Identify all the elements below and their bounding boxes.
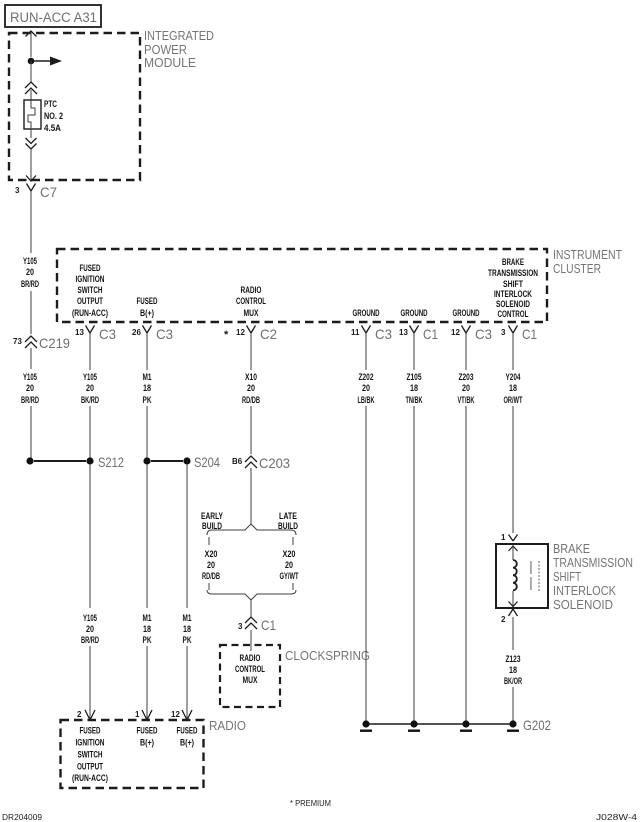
svg-text:Y105: Y105 [23, 256, 37, 267]
svg-text:(RUN-ACC): (RUN-ACC) [72, 773, 108, 784]
svg-text:RADIO: RADIO [209, 718, 246, 733]
svg-text:18: 18 [183, 624, 191, 635]
svg-text:20: 20 [26, 267, 34, 278]
svg-text:20: 20 [362, 383, 370, 394]
svg-text:20: 20 [462, 383, 470, 394]
arrow branch right [31, 60, 52, 62]
svg-text:BR/RD: BR/RD [21, 279, 39, 290]
wire label Z105 18 TN/BK [406, 372, 423, 406]
svg-text:CLOCKSPRING: CLOCKSPRING [285, 648, 370, 663]
svg-text:BRAKE: BRAKE [502, 257, 524, 268]
wire to ground [512, 687, 514, 721]
wire to BTSI solenoid [512, 406, 514, 533]
connector pin 13 C1 [399, 326, 438, 343]
cluster pin label: fused B(+) [137, 296, 158, 319]
wire label X20 20 RD/DB (early) [202, 549, 220, 582]
radio pin label: fused ignition switch output [72, 726, 108, 785]
wire below solenoid [512, 617, 514, 650]
svg-text:20: 20 [207, 560, 215, 571]
cluster pin label: radio control mux [236, 285, 266, 319]
svg-text:GROUND: GROUND [353, 308, 380, 319]
fuse PTC NO.2 4.5A [24, 99, 63, 134]
svg-text:18: 18 [509, 383, 517, 394]
svg-text:M1: M1 [143, 372, 152, 383]
wire label Y105 20 BR/RD [21, 256, 39, 290]
wire [30, 291, 32, 334]
radio pin label: fused B(+) pin12 [177, 726, 198, 749]
wire below fuse [30, 129, 32, 138]
wires into radio [89, 646, 91, 719]
svg-text:BK/OR: BK/OR [504, 676, 522, 687]
svg-text:SHIFT: SHIFT [553, 569, 581, 584]
svg-text:BRAKE: BRAKE [553, 541, 590, 556]
svg-text:3: 3 [238, 622, 243, 631]
svg-text:1: 1 [501, 533, 506, 542]
svg-text:SOLENOID: SOLENOID [553, 597, 613, 612]
cluster pin label: BTSI solenoid control [488, 257, 538, 320]
svg-text:B(+): B(+) [140, 738, 154, 749]
svg-text:SWITCH: SWITCH [78, 285, 103, 296]
wire [30, 61, 32, 82]
connector pin 13 C3 [75, 326, 116, 343]
ground wires down [365, 406, 367, 721]
arrow up inside top [509, 546, 518, 551]
svg-text:C3: C3 [375, 326, 392, 342]
solenoid core dashes [530, 561, 532, 591]
integrated power module box [9, 33, 140, 180]
connector C203 [232, 455, 290, 471]
solenoid pin 1 connector [501, 533, 518, 542]
connector pin 3 C1 [501, 326, 537, 343]
ground symbol 1 [362, 720, 369, 727]
svg-text:RD/DB: RD/DB [202, 571, 220, 582]
svg-text:PTC: PTC [44, 99, 57, 110]
connector pin 11 C3 [351, 326, 392, 343]
svg-text:X20: X20 [205, 549, 218, 560]
radio pin 12 connector [171, 710, 192, 720]
wire label Y105 20 BK/RD [81, 372, 99, 406]
svg-text:11: 11 [351, 328, 360, 337]
svg-text:X10: X10 [245, 372, 257, 383]
wire from merge to C1 [250, 600, 252, 617]
svg-text:BR/RD: BR/RD [21, 395, 39, 406]
radio pin 2 connector [77, 710, 95, 720]
svg-text:CONTROL: CONTROL [236, 296, 266, 307]
svg-text:2: 2 [77, 710, 82, 719]
wire label M1 18 PK (to radio pin12) [183, 613, 192, 646]
branch stub left [208, 537, 210, 545]
wire label Z202 20 LB/BK [358, 372, 375, 406]
svg-text:13: 13 [399, 328, 408, 337]
svg-text:INSTRUMENT: INSTRUMENT [553, 247, 622, 262]
brace split top [207, 524, 296, 535]
svg-text:G202: G202 [523, 717, 551, 733]
svg-text:IGNITION: IGNITION [76, 738, 105, 749]
instrument cluster box [57, 249, 547, 322]
node RUN-ACC A31 feed box [5, 5, 101, 27]
svg-text:VT/BK: VT/BK [458, 395, 475, 406]
svg-text:LB/BK: LB/BK [358, 395, 375, 406]
svg-text:BK/RD: BK/RD [81, 395, 99, 406]
svg-text:C1: C1 [423, 326, 438, 342]
ground symbol 2 [410, 720, 417, 727]
svg-text:18: 18 [143, 383, 151, 394]
svg-text:12: 12 [236, 328, 245, 337]
svg-text:BR/RD: BR/RD [81, 635, 99, 646]
arrow down at box edge [26, 176, 36, 182]
svg-text:FUSED: FUSED [137, 296, 158, 307]
svg-text:C1: C1 [522, 326, 537, 342]
svg-text:13: 13 [75, 328, 84, 337]
svg-text:C219: C219 [39, 335, 70, 351]
svg-text:PK: PK [143, 635, 152, 646]
svg-text:OUTPUT: OUTPUT [77, 296, 103, 307]
wire label Y105 20 BR/RD (left) [21, 372, 39, 406]
svg-text:X20: X20 [283, 549, 296, 560]
svg-text:IGNITION: IGNITION [76, 274, 105, 285]
svg-text:S212: S212 [98, 454, 124, 470]
wire [30, 348, 32, 369]
svg-text:NO. 2: NO. 2 [44, 111, 63, 122]
svg-text:RADIO: RADIO [241, 285, 262, 296]
svg-text:MUX: MUX [244, 308, 259, 319]
wire label X10 20 RD/DB [242, 372, 260, 406]
svg-text:20: 20 [247, 383, 255, 394]
svg-text:GROUND: GROUND [453, 308, 480, 319]
svg-text:*: * [224, 329, 229, 341]
wire stubs below cluster [89, 333, 91, 370]
svg-text:(RUN-ACC): (RUN-ACC) [72, 308, 108, 319]
svg-text:Y105: Y105 [23, 372, 37, 383]
svg-text:GY/WT: GY/WT [280, 571, 299, 582]
connector pin 12 C3 [451, 326, 492, 343]
splice S212 [26, 454, 124, 470]
svg-text:Y105: Y105 [83, 372, 97, 383]
connector pin 26 C3 [132, 326, 173, 343]
ground symbol 4 [509, 720, 516, 727]
svg-text:FUSED: FUSED [137, 726, 158, 737]
svg-text:INTERLOCK: INTERLOCK [553, 583, 616, 598]
svg-text:CLUSTER: CLUSTER [553, 261, 601, 276]
clockspring box radio control mux [220, 645, 280, 707]
wire label M1 18 PK [143, 372, 152, 406]
svg-text:RUN-ACC A31: RUN-ACC A31 [10, 10, 97, 25]
svg-text:CONTROL: CONTROL [235, 664, 265, 675]
svg-text:OUTPUT: OUTPUT [77, 762, 103, 773]
svg-text:MUX: MUX [243, 675, 258, 686]
svg-text:73: 73 [13, 337, 22, 346]
svg-text:C3: C3 [156, 326, 173, 342]
svg-text:3: 3 [501, 328, 506, 337]
svg-text:RADIO: RADIO [240, 653, 261, 664]
svg-text:Z203: Z203 [459, 372, 474, 383]
left wires to radio [89, 464, 91, 608]
svg-text:2: 2 [501, 615, 506, 624]
svg-text:20: 20 [86, 624, 94, 635]
svg-text:20: 20 [86, 383, 94, 394]
branch stub right [292, 537, 294, 545]
svg-text:TRANSMISSION: TRANSMISSION [488, 268, 538, 279]
svg-text:20: 20 [26, 383, 34, 394]
svg-text:FUSED: FUSED [177, 726, 198, 737]
svg-text:TN/BK: TN/BK [406, 395, 423, 406]
ground bus G202 [360, 717, 551, 733]
svg-text:FUSED: FUSED [80, 726, 101, 737]
double chevron down [26, 138, 37, 149]
branch stub left lower [208, 583, 210, 590]
wire to box bottom [30, 149, 32, 181]
svg-text:J028W-4: J028W-4 [596, 813, 638, 822]
wire label Y105 20 BR/RD (to radio) [81, 613, 99, 646]
brace merge bottom [207, 590, 296, 600]
wire label Z203 20 VT/BK [458, 372, 475, 406]
radio box [61, 720, 204, 788]
connector pin *12 C2 [224, 326, 277, 343]
svg-text:RD/DB: RD/DB [242, 395, 260, 406]
svg-text:S204: S204 [194, 454, 220, 470]
early build label [201, 511, 223, 532]
svg-text:B(+): B(+) [180, 738, 194, 749]
svg-text:MODULE: MODULE [144, 55, 196, 70]
wire label M1 18 PK (to radio pin1) [143, 613, 152, 646]
connector C219 [13, 335, 70, 351]
svg-text:4.5A: 4.5A [44, 123, 61, 134]
BTSI solenoid label [553, 541, 633, 612]
svg-text:26: 26 [132, 328, 141, 337]
wire from C203 to build split [250, 468, 252, 524]
wire Y105 from C7 [30, 191, 32, 253]
connector C7 [15, 184, 57, 201]
svg-text:C1: C1 [261, 617, 276, 633]
wire label Z123 18 BK/OR [504, 654, 522, 687]
ground symbol 3 [462, 720, 469, 727]
svg-text:20: 20 [285, 560, 293, 571]
svg-text:Y204: Y204 [506, 372, 521, 383]
wire feed into IPM [30, 31, 32, 57]
BTSI solenoid box [496, 544, 548, 608]
svg-text:PK: PK [143, 395, 152, 406]
wire [30, 90, 32, 100]
double chevron up [25, 82, 37, 94]
svg-text:18: 18 [143, 624, 151, 635]
wire label X20 20 GY/WT (late) [280, 549, 299, 582]
arrow up at IPM top [26, 31, 37, 37]
wires down to splices [30, 406, 32, 458]
svg-text:Z123: Z123 [506, 654, 521, 665]
svg-text:Z202: Z202 [359, 372, 374, 383]
svg-text:1: 1 [135, 710, 140, 719]
svg-text:DR204009: DR204009 [2, 813, 43, 822]
solenoid pin 2 connector [501, 609, 518, 624]
svg-text:GROUND: GROUND [401, 308, 428, 319]
svg-text:C203: C203 [259, 455, 290, 471]
svg-text:18: 18 [410, 383, 418, 394]
svg-text:FUSED: FUSED [80, 263, 101, 274]
svg-text:* PREMIUM: * PREMIUM [290, 799, 331, 808]
wire label Y204 18 OR/WT [504, 372, 523, 406]
wire into clockspring [250, 630, 252, 651]
svg-text:OR/WT: OR/WT [504, 395, 523, 406]
svg-text:Y105: Y105 [83, 613, 97, 624]
radio pin 1 connector [135, 710, 152, 720]
arrow down inside bottom [509, 602, 518, 607]
radio pin label: fused B(+) pin1 [137, 726, 158, 749]
svg-text:12: 12 [171, 710, 180, 719]
svg-text:M1: M1 [183, 613, 192, 624]
svg-text:C7: C7 [40, 184, 57, 200]
connector C1 (clockspring) [238, 617, 276, 633]
svg-text:C2: C2 [260, 326, 277, 342]
late build label [278, 511, 298, 532]
svg-text:18: 18 [509, 665, 517, 676]
svg-text:SWITCH: SWITCH [78, 750, 103, 761]
splice S204 [143, 454, 220, 470]
branch stub right lower [292, 583, 294, 590]
svg-text:CONTROL: CONTROL [498, 309, 529, 320]
svg-text:B6: B6 [232, 457, 243, 466]
svg-text:INTEGRATED: INTEGRATED [144, 28, 214, 43]
cluster pin label: fused ignition switch output [72, 263, 108, 319]
junction dot [28, 58, 35, 65]
svg-text:B(+): B(+) [140, 308, 154, 319]
svg-text:12: 12 [451, 328, 460, 337]
svg-text:C3: C3 [475, 326, 492, 342]
svg-text:PK: PK [183, 635, 192, 646]
svg-text:3: 3 [15, 186, 20, 195]
svg-text:Z105: Z105 [407, 372, 422, 383]
svg-text:M1: M1 [143, 613, 152, 624]
svg-text:TRANSMISSION: TRANSMISSION [553, 555, 633, 570]
svg-text:C3: C3 [99, 326, 116, 342]
solenoid coil [513, 560, 517, 590]
